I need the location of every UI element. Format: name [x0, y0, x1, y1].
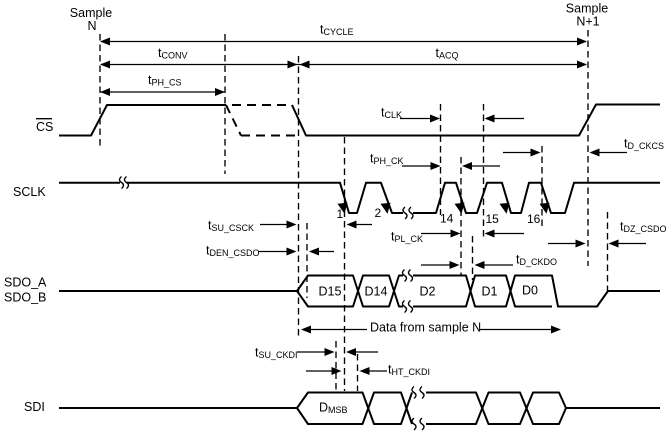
head tCONV left — [100, 61, 110, 69]
dashed guide lines — [100, 30, 608, 391]
svg-text:D14: D14 — [365, 285, 388, 299]
arrow tPH_CS span — [101, 91, 224, 93]
head data-from-sample right — [551, 326, 561, 334]
node SCLK fall arrowhead edge 16 — [540, 203, 550, 214]
svg-text:SDO_B: SDO_B — [4, 291, 46, 305]
svg-text:D15: D15 — [319, 285, 342, 299]
head tDZ_CSDO right — [576, 240, 586, 248]
svg-text:SDO_A: SDO_A — [4, 276, 47, 290]
arrow data-from-sample left shaft — [309, 329, 367, 331]
node SCLK fall arrowhead edge 14 — [455, 203, 465, 214]
head tSU_CKDI right — [325, 348, 335, 356]
signal label CS with overline — [36, 119, 53, 134]
node SCLK break squiggle low — [403, 207, 413, 219]
wire CS low-rise-high segment — [59, 105, 226, 136]
svg-text:16: 16 — [527, 212, 541, 226]
svg-text:D2: D2 — [420, 285, 436, 299]
head tD_CKDO right — [450, 261, 460, 269]
head tCLK left — [485, 115, 495, 123]
svg-text:SCLK: SCLK — [13, 185, 46, 199]
arrow tD_CKCS right — [503, 152, 531, 154]
node SDO break squiggle top — [403, 270, 413, 282]
svg-text:SDI: SDI — [24, 400, 45, 414]
head tDEN_CSDO right — [287, 248, 297, 256]
timing arrows — [101, 42, 646, 372]
head tCYCLE left — [100, 38, 110, 46]
node SCLK fall arrowhead edge 1 — [338, 203, 348, 214]
svg-text:Sample: Sample — [70, 6, 112, 20]
wire SDO D2-D1-D0 lower outline — [413, 276, 552, 307]
arrow tCLK right — [400, 118, 431, 120]
head tPH_CS left — [100, 88, 110, 96]
arrow tPL_CK left — [492, 233, 524, 235]
wire CS dashed early fall — [226, 105, 241, 136]
svg-text:14: 14 — [440, 212, 454, 226]
node SCLK break squiggle left — [120, 177, 129, 189]
head tD_CKDO left — [475, 261, 485, 269]
arrowheads — [100, 38, 619, 376]
node guide x=542 SCLK fall 16 — [541, 146, 543, 228]
wire SDO D2-D1-D0 upper outline and return to mid — [413, 276, 660, 307]
svg-text:Sample: Sample — [566, 2, 608, 16]
svg-text:D0: D0 — [522, 284, 538, 298]
node Sample N+1 label — [566, 2, 608, 29]
svg-text:Data from sample N: Data from sample N — [370, 321, 481, 335]
wire SCLK pulses 1-2 — [127, 183, 403, 213]
arrow tDZ_CSDO left — [616, 243, 646, 245]
head tDEN_CSDO left — [309, 248, 319, 256]
svg-text:15: 15 — [486, 212, 500, 226]
wire SCLK pulses 14-16 and idle high — [413, 183, 660, 213]
node guide x=357 SDI hold — [357, 354, 359, 391]
arrow tSU_CKDI right — [297, 351, 327, 353]
arrow tSU_CKDI left — [354, 351, 378, 353]
head tHT_CKDI left — [360, 367, 370, 375]
arrow tCONV tACQ span — [101, 64, 586, 66]
node guide x=440 SCLK rise 14 — [440, 104, 442, 215]
wire SDI idle mid level — [59, 407, 297, 409]
wire SDI DMSB lower outline — [297, 393, 412, 425]
head tPH_CK right — [431, 162, 441, 170]
node guide x=461 SCLK fall 14 — [460, 157, 462, 276]
arrow tDZ_CSDO right — [548, 243, 577, 245]
node Sample N label — [70, 6, 112, 33]
arrow tHT_CKDI right — [306, 370, 334, 372]
arrow tDEN_CSDO right — [258, 251, 288, 253]
head tD_CKCS right — [531, 149, 541, 157]
arrow tPH_CK left — [471, 165, 500, 167]
wire SDO idle mid level — [59, 290, 297, 292]
node guide x=100 sample N — [99, 34, 101, 149]
wire SCLK idle high left of break — [59, 182, 120, 184]
wire SDO D15-D14 upper outline — [297, 276, 403, 307]
wire SDI DMSB upper outline — [297, 393, 412, 425]
arrow tDEN_CSDO left — [317, 251, 334, 253]
node SCLK fall arrowhead edge 15 — [500, 203, 510, 214]
node guide x=307 SDO enable — [306, 223, 308, 298]
wire CS dashed high — [232, 104, 292, 106]
svg-text:1: 1 — [337, 207, 344, 221]
node guide x=225 CS early fall — [224, 34, 226, 174]
head tD_CKCS left — [590, 149, 600, 157]
head tCLK right — [430, 115, 440, 123]
head tHT_CKDI right — [332, 367, 342, 375]
node guide x=344 SCLK edge 1 — [344, 137, 346, 391]
wire CS dashed low — [241, 135, 298, 137]
wire CS fall-low-rise-high segment — [292, 105, 660, 136]
head tDZ_CSDO left — [609, 240, 619, 248]
node guide x=607 SDO disable — [607, 212, 609, 291]
node SDO break squiggle bottom — [403, 301, 413, 313]
arrow tPL_CK right — [421, 233, 452, 235]
node SDI break squiggle bottom — [412, 418, 424, 430]
node guide x=298 CS fall / conv-acq boundary — [298, 56, 300, 336]
node guide x=588 sample N+1 — [587, 30, 589, 266]
wire SDO D15-D14 lower outline — [297, 276, 403, 307]
node SCLK fall arrowhead edge 2 — [381, 203, 391, 214]
head tPL_CK right — [451, 230, 461, 238]
arrow tPH_CK right — [402, 165, 432, 167]
arrow tSU_CSCK left — [355, 224, 372, 226]
head tSU_CSCK left — [347, 221, 357, 229]
head tACQ right — [577, 61, 587, 69]
head tPH_CK left — [462, 162, 472, 170]
svg-text:CS: CS — [36, 120, 53, 134]
svg-text:D1: D1 — [482, 285, 498, 299]
head tACQ left — [300, 61, 310, 69]
svg-text:N+1: N+1 — [576, 15, 599, 29]
head tSU_CKDI left — [346, 348, 356, 356]
wire SDI right boxes lower outline — [426, 393, 566, 425]
head tPH_CS right — [215, 88, 225, 96]
arrow tCYCLE span — [101, 41, 586, 43]
arrow tD_CKCS left — [598, 152, 627, 154]
head data-from-sample left — [301, 326, 311, 334]
node SDI break squiggle top — [412, 387, 424, 399]
arrow tSU_CSCK right — [260, 224, 288, 226]
head tPL_CK left — [485, 230, 495, 238]
svg-text:N: N — [87, 19, 96, 33]
arrow tD_CKDO left — [483, 264, 513, 266]
head tCONV right — [288, 61, 298, 69]
svg-text:2: 2 — [375, 206, 382, 220]
head tSU_CSCK right — [287, 221, 297, 229]
node guide x=336 SDI setup — [335, 341, 337, 390]
node guide x=483 SCLK rise 15 — [483, 104, 485, 240]
arrow tD_CKDO right — [421, 264, 452, 266]
wire SDI right boxes upper outline and return to mid — [426, 393, 660, 425]
node guide x=472 data change — [472, 236, 474, 280]
arrow tCLK left — [493, 118, 524, 120]
arrow data-from-sample right shaft — [480, 329, 553, 331]
head tCYCLE right — [577, 38, 587, 46]
arrow tHT_CKDI left — [367, 370, 387, 372]
